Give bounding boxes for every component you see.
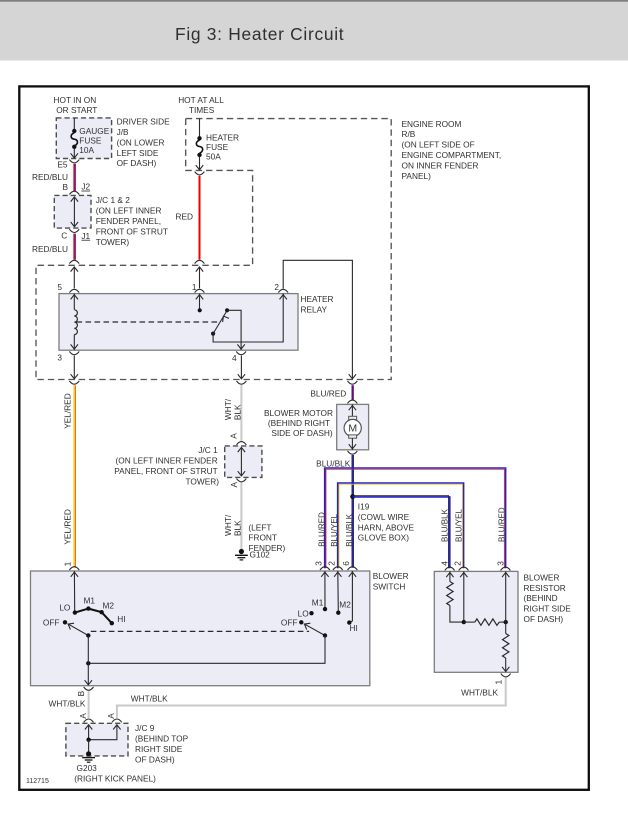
wire YEL/RED (relay pin 3 to blower switch pin 1) xyxy=(63,385,76,568)
svg-text:FUSE: FUSE xyxy=(79,136,102,146)
svg-text:PANEL, FRONT OF STRUT: PANEL, FRONT OF STRUT xyxy=(114,466,217,476)
wire WHT/BLK (J/C 1 to G102) xyxy=(223,483,243,549)
relay pin 1 xyxy=(192,282,205,293)
wire BLU/BLK (I19 branch to resistor pin 4) xyxy=(341,496,450,569)
svg-text:HOT AT ALL: HOT AT ALL xyxy=(178,95,224,105)
svg-text:M1: M1 xyxy=(312,598,324,608)
svg-text:RIGHT SIDE: RIGHT SIDE xyxy=(135,744,183,754)
schematic frame xyxy=(19,86,589,789)
wire BLU/RED (boundary to blower motor) xyxy=(310,385,357,403)
svg-text:YEL/RED: YEL/RED xyxy=(63,509,73,545)
relay internal dashed link (coil to switch arm) xyxy=(77,321,218,323)
svg-text:3: 3 xyxy=(314,561,324,566)
svg-text:FUSE: FUSE xyxy=(206,142,229,152)
svg-text:FRONT: FRONT xyxy=(248,533,277,543)
wire BLU/RED (blower switch pin 3 to resistor pin 3) xyxy=(314,468,506,568)
junction connector J/C 9 (dashed box) xyxy=(66,723,189,764)
svg-text:HEATER: HEATER xyxy=(206,133,239,143)
blower switch mechanical link (dashed) xyxy=(91,630,309,632)
connector C / J1 xyxy=(61,229,90,241)
wire BLU/YEL (blower switch pin 2 to resistor pin 2) xyxy=(326,483,463,568)
fuse HEATER FUSE 50A xyxy=(196,119,239,170)
svg-text:RED/BLU: RED/BLU xyxy=(32,172,68,182)
svg-text:(COWL WIRE: (COWL WIRE xyxy=(358,512,410,522)
wire BLU/BLK (motor to blower switch pin 6) xyxy=(316,451,357,568)
wire RED/BLU (E5 to B) xyxy=(32,164,75,191)
svg-text:ENGINE COMPARTMENT,: ENGINE COMPARTMENT, xyxy=(402,150,502,160)
resistor pin 3 lead xyxy=(502,571,509,622)
svg-text:RESISTOR: RESISTOR xyxy=(524,583,566,593)
blower switch common wiper bus xyxy=(85,636,325,686)
svg-text:PANEL): PANEL) xyxy=(402,171,432,181)
svg-text:BLU/BLK: BLU/BLK xyxy=(345,513,354,547)
svg-text:BLU/BLK: BLU/BLK xyxy=(316,458,351,468)
svg-text:GLOVE BOX): GLOVE BOX) xyxy=(358,533,409,543)
svg-text:WHT/BLK: WHT/BLK xyxy=(131,693,168,703)
wire WHT/BLK (resistor pin 1 back to J/C 9) xyxy=(117,678,506,718)
svg-text:BLOWER: BLOWER xyxy=(524,572,560,582)
svg-text:OR START: OR START xyxy=(56,105,97,115)
blower resistor box xyxy=(434,571,571,672)
svg-text:3: 3 xyxy=(495,561,505,566)
svg-text:RIGHT SIDE: RIGHT SIDE xyxy=(524,604,572,614)
relay pin 3 xyxy=(57,351,79,362)
svg-text:SWITCH: SWITCH xyxy=(373,582,406,592)
svg-text:1: 1 xyxy=(62,561,72,566)
junction I19 xyxy=(350,494,414,543)
svg-text:M1: M1 xyxy=(84,596,96,606)
connector A into J/C 9 (left) xyxy=(78,713,93,723)
engine room R/B dashed outline xyxy=(36,119,501,380)
ground G203 xyxy=(74,751,156,783)
relay arm common to pin 2 xyxy=(213,294,287,342)
relay pin 4 xyxy=(232,351,246,362)
boundary connector into engine room R/B (left) xyxy=(69,260,79,288)
svg-text:OFF: OFF xyxy=(43,618,60,628)
svg-text:C: C xyxy=(61,230,67,240)
svg-text:A: A xyxy=(229,482,239,488)
svg-text:SIDE OF DASH): SIDE OF DASH) xyxy=(271,428,333,438)
svg-text:Fig 3: Heater Circuit: Fig 3: Heater Circuit xyxy=(175,24,344,44)
svg-text:HEATER: HEATER xyxy=(301,294,334,304)
svg-text:BLU/BLK: BLU/BLK xyxy=(441,508,450,542)
wire RED (heater fuse to relay boundary) xyxy=(175,176,199,260)
svg-text:J/C 9: J/C 9 xyxy=(135,723,155,733)
right side wire labels xyxy=(439,507,506,566)
svg-text:BLU/RED: BLU/RED xyxy=(310,388,346,398)
resistor pin 2 dome xyxy=(459,567,469,570)
title bar band xyxy=(0,0,628,61)
svg-text:OFF: OFF xyxy=(281,618,298,628)
svg-text:TOWER): TOWER) xyxy=(186,476,220,486)
svg-text:(BEHIND RIGHT: (BEHIND RIGHT xyxy=(268,418,330,428)
svg-text:4: 4 xyxy=(232,353,237,363)
connector A below J/C 1 xyxy=(229,479,246,488)
boundary connector into relay area (pin 1 feed) xyxy=(195,260,205,288)
junction block: DRIVER SIDE J/B (dashed box) xyxy=(56,117,170,169)
svg-text:A: A xyxy=(78,713,88,719)
svg-text:M2: M2 xyxy=(339,600,351,610)
svg-text:(BEHIND: (BEHIND xyxy=(524,593,558,603)
svg-text:3: 3 xyxy=(57,353,62,363)
fuse GAUGE FUSE 10A xyxy=(71,118,110,158)
svg-text:J/B: J/B xyxy=(117,127,129,137)
blower switch box xyxy=(31,571,409,686)
svg-text:DRIVER SIDE: DRIVER SIDE xyxy=(117,117,170,127)
heater relay box xyxy=(59,294,334,351)
svg-text:ON INNER FENDER: ON INNER FENDER xyxy=(402,160,479,170)
svg-text:ENGINE ROOM: ENGINE ROOM xyxy=(402,119,462,129)
svg-text:(ON LEFT INNER FENDER: (ON LEFT INNER FENDER xyxy=(116,456,218,466)
svg-text:RED: RED xyxy=(175,212,193,222)
svg-text:E5: E5 xyxy=(57,159,68,169)
wire pin 3 to boundary xyxy=(69,356,79,385)
wire RED/BLU (J1 down to engine room boundary) xyxy=(32,234,75,260)
svg-text:(ON LEFT SIDE OF: (ON LEFT SIDE OF xyxy=(402,140,475,150)
resistor element R1 (pin 4 branch) xyxy=(446,571,464,622)
resistor pin 1 xyxy=(494,674,511,685)
svg-text:J/C 1 & 2: J/C 1 & 2 xyxy=(96,195,131,205)
svg-text:2: 2 xyxy=(274,282,279,292)
wire pin 2 up and over to blower motor (inside R/B) xyxy=(283,260,357,384)
relay pin 2 xyxy=(274,282,288,293)
svg-text:FRONT OF STRUT: FRONT OF STRUT xyxy=(96,226,168,236)
blower switch pin 1 xyxy=(62,561,79,570)
blower motor M1 xyxy=(264,404,369,449)
boundary connector below heater fuse xyxy=(195,172,205,175)
relay switch arm xyxy=(211,308,229,336)
relay pin 1 internal lead and stationary contact xyxy=(196,294,203,313)
blower switch pin 6 xyxy=(348,567,358,570)
svg-text:BLOWER MOTOR: BLOWER MOTOR xyxy=(264,408,333,418)
blower switch pin 3 xyxy=(320,567,330,570)
svg-text:FENDER PANEL,: FENDER PANEL, xyxy=(96,216,161,226)
blower switch pin B xyxy=(76,687,94,696)
junction connector J/C 1 & 2 (dashed box) xyxy=(54,195,168,247)
relay contact to pin 4 xyxy=(227,310,245,350)
svg-text:BLOWER: BLOWER xyxy=(373,571,409,581)
svg-text:FENDER): FENDER) xyxy=(248,543,285,553)
svg-text:112715: 112715 xyxy=(26,778,49,785)
svg-text:A: A xyxy=(106,713,116,719)
svg-text:WHT/: WHT/ xyxy=(223,514,233,536)
node HOT IN ON OR START xyxy=(54,95,98,115)
svg-text:WHT/: WHT/ xyxy=(223,398,233,420)
blower switch left pole xyxy=(43,571,126,638)
svg-text:1: 1 xyxy=(494,680,504,685)
connector E5 xyxy=(57,159,79,169)
svg-text:G203: G203 xyxy=(77,763,98,773)
svg-text:M2: M2 xyxy=(103,601,115,611)
svg-text:HARN, ABOVE: HARN, ABOVE xyxy=(358,522,415,532)
svg-text:J1: J1 xyxy=(81,231,90,241)
svg-text:R/B: R/B xyxy=(402,129,416,139)
svg-text:(ON LEFT INNER: (ON LEFT INNER xyxy=(96,206,162,216)
svg-text:GAUGE: GAUGE xyxy=(79,126,109,136)
svg-text:I19: I19 xyxy=(358,502,370,512)
resistor pin 4 domes xyxy=(445,567,455,570)
svg-text:(RIGHT KICK PANEL): (RIGHT KICK PANEL) xyxy=(74,774,156,784)
svg-text:TIMES: TIMES xyxy=(189,105,215,115)
resistor element R3 (to pin 1) xyxy=(502,622,509,672)
wire pin 4 to boundary xyxy=(237,356,247,385)
svg-text:A: A xyxy=(228,433,238,439)
svg-text:OF DASH): OF DASH) xyxy=(135,754,175,764)
junction connector J/C 1 (dashed box) xyxy=(114,445,262,486)
svg-text:LO: LO xyxy=(59,603,71,613)
resistor pin 3 dome xyxy=(501,567,511,570)
svg-text:50A: 50A xyxy=(206,152,221,162)
svg-text:RED/BLU: RED/BLU xyxy=(32,244,68,254)
connector B / J2 xyxy=(62,182,90,195)
connector A into J/C 1 xyxy=(228,433,246,445)
svg-text:BLU/RED: BLU/RED xyxy=(317,512,326,547)
resistor pin 2 lead xyxy=(460,571,467,624)
relay pin 5 xyxy=(57,282,79,293)
svg-text:2: 2 xyxy=(326,561,336,566)
svg-text:WHT/BLK: WHT/BLK xyxy=(49,699,86,709)
svg-text:BLU/YEL: BLU/YEL xyxy=(330,513,339,546)
svg-text:WHT/BLK: WHT/BLK xyxy=(461,687,498,697)
svg-text:BLU/YEL: BLU/YEL xyxy=(455,509,464,542)
ground G102 xyxy=(235,522,286,560)
svg-text:YEL/RED: YEL/RED xyxy=(63,393,73,429)
svg-text:B: B xyxy=(62,182,68,192)
svg-text:M: M xyxy=(348,423,357,435)
svg-text:5: 5 xyxy=(57,282,62,292)
svg-text:RELAY: RELAY xyxy=(301,304,328,314)
svg-text:6: 6 xyxy=(341,561,351,566)
blower switch pin 2 xyxy=(333,567,343,570)
wire WHT/BLK (switch pin B to J/C 9) xyxy=(49,691,89,718)
wire WHT/BLK (relay pin 4 to J/C 1) xyxy=(223,385,243,441)
svg-text:HI: HI xyxy=(350,623,358,633)
svg-text:BLK: BLK xyxy=(232,404,242,420)
svg-text:B: B xyxy=(76,690,86,696)
svg-text:LO: LO xyxy=(298,608,310,618)
svg-text:BLU/RED: BLU/RED xyxy=(498,507,507,542)
svg-text:BLK: BLK xyxy=(232,520,242,536)
svg-text:2: 2 xyxy=(452,561,462,566)
svg-text:(BEHIND TOP: (BEHIND TOP xyxy=(135,734,189,744)
svg-text:TOWER): TOWER) xyxy=(96,237,130,247)
svg-text:(ON LOWER: (ON LOWER xyxy=(117,137,165,147)
svg-text:OF DASH): OF DASH) xyxy=(117,158,157,168)
relay coil (pin 5 to pin 3) xyxy=(71,294,78,350)
svg-text:HOT IN ON: HOT IN ON xyxy=(54,95,97,105)
svg-text:(LEFT: (LEFT xyxy=(248,522,271,532)
svg-text:OF DASH): OF DASH) xyxy=(524,614,564,624)
svg-text:4: 4 xyxy=(439,561,449,566)
svg-text:10A: 10A xyxy=(79,145,94,155)
svg-text:J/C 1: J/C 1 xyxy=(198,445,218,455)
svg-text:J2: J2 xyxy=(81,182,90,192)
node HOT AT ALL TIMES xyxy=(178,95,224,115)
resistor element R2 (horizontal) xyxy=(464,619,508,625)
connector A into J/C 9 (right) xyxy=(106,713,122,723)
svg-text:LEFT SIDE: LEFT SIDE xyxy=(117,148,159,158)
blower switch right pole xyxy=(281,571,358,638)
svg-text:HI: HI xyxy=(117,614,125,624)
